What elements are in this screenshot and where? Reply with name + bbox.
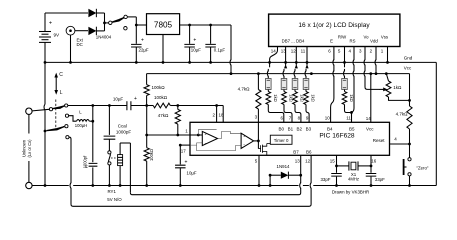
svg-text:12: 12 [305, 159, 311, 164]
wire LCD pin3 Vo [364, 47, 379, 90]
wire PIC pin18 riser [222, 106, 224, 123]
terminal post top (Lx/Cx) [26, 108, 32, 114]
svg-text:C: C [85, 164, 88, 169]
wire 7805 output rail [180, 24, 231, 26]
relay RY1 coil [118, 143, 131, 193]
PIC pin 5 number [255, 159, 258, 164]
wire PIC pin14 vcc [369, 72, 372, 122]
PIC pin 7 number [289, 115, 292, 120]
PIC pin 6 number [281, 115, 284, 120]
svg-text:−: − [205, 141, 207, 145]
pot bottom wire [389, 97, 410, 100]
LCD pin name DB7..DB4 [282, 39, 305, 44]
arrow stub pin12 [295, 62, 298, 68]
capacitor C 22uF [131, 25, 149, 62]
pin 4 label [394, 137, 397, 142]
LCD pin number 1 [381, 48, 384, 53]
svg-text:B5: B5 [349, 126, 355, 131]
label 1N4004 [96, 35, 112, 40]
resistor R 4.7k (reset pullup) [396, 100, 412, 145]
zero pushbutton S3 [404, 144, 429, 187]
arrow stub pin11 [305, 62, 308, 68]
svg-text:PIC 16F628: PIC 16F628 [319, 133, 355, 140]
PIC port label Vcc [366, 126, 374, 131]
LCD pin number 11 [301, 48, 306, 53]
PIC pin 14 number [366, 116, 372, 121]
svg-text:Ccal: Ccal [118, 123, 127, 128]
PIC port label B2 [296, 126, 302, 131]
resistor R 1k (RS/B5 line) with box [342, 62, 354, 122]
node diode junction [103, 13, 109, 31]
terminal post bottom (Lx/Cx) [26, 182, 32, 188]
crystal X1 4MHz [335, 155, 372, 181]
svg-text:11: 11 [346, 115, 351, 120]
wire switch to regulator [127, 17, 146, 27]
svg-text:B1: B1 [288, 126, 294, 131]
gnd dots power [44, 61, 212, 64]
vcc bus [147, 73, 410, 75]
LCD pin name E [330, 39, 333, 44]
svg-text:1kΩ: 1kΩ [273, 94, 278, 101]
wire top terminal to switch [32, 109, 49, 111]
LCD pin name Vdd [370, 39, 378, 44]
arrow stub pin13 [284, 62, 287, 68]
svg-text:Vss: Vss [381, 35, 388, 40]
svg-text:10µF: 10µF [113, 97, 124, 102]
resistor R 100k (to vcc) [144, 74, 165, 106]
PIC port label B0 [278, 126, 284, 131]
svg-text:100kΩ: 100kΩ [152, 85, 166, 90]
wire pin1 line [147, 134, 190, 136]
capacitor C 10uF (reg out) [184, 24, 201, 63]
svg-text:Timer 0: Timer 0 [274, 138, 289, 143]
svg-text:16: 16 [371, 159, 377, 164]
svg-text:100kΩ: 100kΩ [154, 95, 168, 100]
switch S1 contact to B6 [66, 136, 69, 139]
LCD module 16x1 display [269, 14, 400, 46]
LCD pin number 2 [370, 48, 373, 53]
switch S1 upper section [49, 104, 67, 111]
wire battery top to diodes [45, 12, 88, 14]
svg-text:10µF: 10µF [191, 48, 201, 53]
PIC port label B6 [306, 149, 312, 154]
LCD pin name R/W [338, 35, 347, 40]
capacitor C 0.1uF [205, 24, 225, 63]
label Gnd [404, 56, 413, 61]
inductor L 100uH [69, 110, 95, 129]
svg-text:Unknown: Unknown [21, 139, 26, 157]
svg-text:R/W: R/W [338, 35, 347, 40]
regulator U2 7805 [147, 14, 180, 35]
svg-text:1kΩ: 1kΩ [393, 85, 402, 90]
svg-text:DC: DC [77, 42, 83, 47]
svg-text:−: − [243, 143, 245, 147]
gnd drop to switch pole [44, 62, 47, 187]
svg-text:100kΩ: 100kΩ [149, 149, 154, 161]
PIC pin 9 number [306, 115, 309, 120]
PIC pin 16 number [371, 159, 377, 164]
mech link dashed [55, 100, 57, 131]
Timer 0 box [267, 135, 292, 144]
PIC pin 13 number [295, 159, 301, 164]
svg-text:1kΩ: 1kΩ [349, 94, 354, 101]
diode D 1N914 [269, 164, 302, 187]
svg-text:B4: B4 [327, 126, 333, 131]
svg-text:C: C [59, 72, 63, 78]
PIC port label B7 [293, 149, 299, 154]
svg-text:14: 14 [366, 116, 372, 121]
resistor R 1k (DB7 line) with box [266, 62, 284, 122]
LCD pin number 13 [281, 48, 287, 53]
PIC pin 12 number [305, 159, 311, 164]
svg-text:RS: RS [350, 39, 356, 44]
LCD pin name Vo [363, 35, 369, 40]
wire PIC pin5 gnd [258, 155, 261, 187]
wire 5V riser to Vcc bus [230, 25, 233, 75]
svg-text:11: 11 [301, 48, 306, 53]
comparator 1 [202, 131, 217, 145]
node line after switch [68, 104, 127, 107]
PIC pin 8 number [298, 115, 301, 120]
PIC pin 18 number [218, 113, 224, 118]
comp2 neg input wiring [197, 145, 242, 151]
wire reset [390, 143, 410, 145]
PIC port label B3 [306, 126, 312, 131]
svg-text:Vdd: Vdd [370, 39, 378, 44]
svg-text:47kΩ: 47kΩ [158, 113, 169, 118]
switch S1 lower section [44, 125, 68, 133]
wire LCD pin12 [295, 47, 298, 64]
capacitor C 1000pF (tank) [82, 106, 97, 187]
svg-text:33pF: 33pF [375, 177, 385, 182]
svg-text:Reset: Reset [373, 138, 386, 143]
LCD pin number 4 [348, 48, 351, 53]
svg-text:15: 15 [330, 159, 336, 164]
capacitor C 10uF (pin17) [175, 145, 197, 187]
LCD pin number 12 [291, 48, 297, 53]
wire LCD pin5 R/W [343, 47, 346, 64]
PIC pin 2 number [212, 113, 215, 118]
wire PIC pin2 riser [216, 106, 218, 123]
svg-text:DB7 ... DB4: DB7 ... DB4 [282, 39, 305, 44]
label 5V N/O [107, 197, 122, 202]
capacitor C 33pF (left) [320, 166, 341, 187]
vcc bus right drop [408, 74, 411, 102]
svg-text:+: + [134, 96, 137, 102]
svg-text:4MHz: 4MHz [348, 177, 359, 182]
LCD pin number 6 [328, 48, 331, 53]
switch S1 contact to L [65, 114, 68, 117]
wire LCD pin14 DB7 [268, 47, 277, 64]
wire pin17 line [179, 144, 190, 147]
comp2 output node [254, 122, 260, 142]
PIC pin 11 number [346, 115, 351, 120]
power switch S2 [109, 15, 128, 30]
svg-text:10µF: 10µF [187, 171, 197, 176]
series capacitor 10uF [113, 96, 148, 110]
wire LCD pin11 [306, 47, 309, 64]
svg-text:B0: B0 [278, 126, 284, 131]
svg-text:9V: 9V [54, 33, 61, 38]
PIC pin 10 number [325, 115, 331, 120]
svg-text:+: + [193, 38, 196, 44]
svg-text:L: L [60, 90, 63, 96]
vcc dot misc [310, 72, 313, 75]
svg-text:1N4004: 1N4004 [96, 35, 112, 40]
svg-text:+: + [243, 134, 245, 138]
svg-text:"Zero": "Zero" [417, 166, 429, 171]
wire LCD pin2 Vdd [375, 47, 378, 76]
svg-text:Gnd: Gnd [404, 56, 413, 61]
PIC pin 15 number [330, 159, 336, 164]
LCD pin name Vss [381, 35, 388, 40]
label PIC 16F628 [319, 133, 355, 140]
svg-text:33pF: 33pF [320, 177, 330, 182]
resistor R 1k (DB4 line) with box [303, 69, 315, 122]
wire PIC pin12 B6 loop [69, 137, 311, 206]
PIC U1 16F628 box [190, 122, 390, 155]
diode D1 1N4004 (battery) [88, 9, 104, 17]
pin 1 label [185, 129, 188, 134]
svg-text:4.7kΩ: 4.7kΩ [238, 86, 251, 91]
comparator 2 [241, 133, 254, 148]
wire LCD pin13 [284, 47, 287, 64]
svg-text:+: + [141, 38, 144, 44]
svg-text:1N914: 1N914 [277, 164, 290, 169]
svg-text:7805: 7805 [154, 21, 173, 30]
svg-text:(Lx or Cx): (Lx or Cx) [27, 139, 32, 158]
svg-text:1kΩ: 1kΩ [289, 94, 294, 101]
diode D2 1N4004 (ext dc) [88, 27, 104, 35]
label RY1 [107, 189, 116, 194]
svg-text:B7: B7 [293, 149, 299, 154]
resistor R 4.7k (comparator) [238, 72, 261, 109]
svg-text:10: 10 [325, 115, 331, 120]
svg-text:22µF: 22µF [139, 48, 149, 53]
ext DC connector J1 [66, 26, 88, 62]
svg-text:Drawn by VK3BHR: Drawn by VK3BHR [332, 189, 369, 194]
relay RY1 contact [108, 151, 117, 187]
resistor R 47k [158, 106, 181, 137]
resistor R 1k (DB5 line) with box [292, 69, 304, 122]
transistor Q internal [258, 141, 266, 155]
C/L selector arrow [54, 72, 63, 96]
pot wiper arrow [379, 87, 387, 91]
svg-text:1000pF: 1000pF [116, 130, 132, 135]
svg-text:E: E [330, 39, 333, 44]
svg-text:Vo: Vo [363, 35, 369, 40]
label Drawn by VK3BHR [332, 189, 369, 194]
svg-text:16 x 1(or 2) LCD Display: 16 x 1(or 2) LCD Display [298, 22, 370, 29]
LCD pin number 14 [271, 48, 277, 53]
label Reset [373, 138, 386, 143]
pin 17 label [181, 149, 187, 154]
wire between terminals [28, 114, 30, 182]
node line to comparator pins [178, 104, 223, 107]
battery B1 9V [39, 13, 60, 62]
svg-text:Vcc: Vcc [404, 66, 412, 71]
capacitor Ccal 1000pF [104, 106, 132, 151]
wire PIC pin13 B7 to relay [130, 155, 300, 194]
resistor R 100k (series) [147, 95, 180, 108]
svg-text:+: + [49, 21, 52, 27]
label Unknown Lx or Cx [21, 139, 32, 158]
gnd bus right drop [435, 62, 437, 185]
svg-text:13: 13 [295, 159, 301, 164]
svg-text:B2: B2 [296, 126, 302, 131]
svg-text:5V N/O: 5V N/O [107, 197, 122, 202]
label Vcc [404, 66, 412, 71]
gnd bus [45, 61, 436, 63]
comp1 output wiring [218, 132, 242, 139]
wire LCD pin6 E [331, 47, 334, 123]
svg-text:Vcc: Vcc [366, 126, 374, 131]
svg-text:RY1: RY1 [107, 189, 116, 194]
wire LCD pin4 RS [350, 47, 354, 123]
svg-text:0.1µF: 0.1µF [214, 48, 226, 53]
PIC pin 3 number [255, 115, 258, 120]
capacitor C 33pF (right) [366, 166, 385, 187]
PIC port label B5 [349, 126, 355, 131]
LCD pin name RS [350, 39, 356, 44]
svg-text:4.7kΩ: 4.7kΩ [396, 112, 409, 117]
svg-text:B6: B6 [306, 149, 312, 154]
resistor R 1k (DB6 line) with box [281, 69, 293, 122]
svg-text:B3: B3 [306, 126, 312, 131]
wire PIC pin3 riser [257, 109, 259, 122]
svg-text:17: 17 [181, 149, 187, 154]
bottom gnd bus [32, 185, 436, 187]
svg-text:12: 12 [291, 48, 297, 53]
wire LCD pin1 Vss [386, 47, 389, 64]
comp1 input wiring [190, 130, 217, 145]
resistor R 100k (lower) [144, 106, 154, 187]
LCD pin number 3 [359, 48, 362, 53]
contrast pot 1k [385, 72, 402, 97]
wire 7805 ground pin [162, 35, 164, 63]
LCD pin number 5 [338, 48, 341, 53]
svg-text:100µH: 100µH [75, 123, 87, 128]
svg-text:1kΩ: 1kΩ [300, 94, 305, 101]
PIC port label B4 [327, 126, 333, 131]
svg-text:1kΩ: 1kΩ [311, 94, 316, 101]
svg-text:14: 14 [271, 48, 277, 53]
PIC port label B1 [288, 126, 294, 131]
svg-text:+: + [185, 160, 188, 166]
svg-text:+: + [205, 133, 207, 137]
